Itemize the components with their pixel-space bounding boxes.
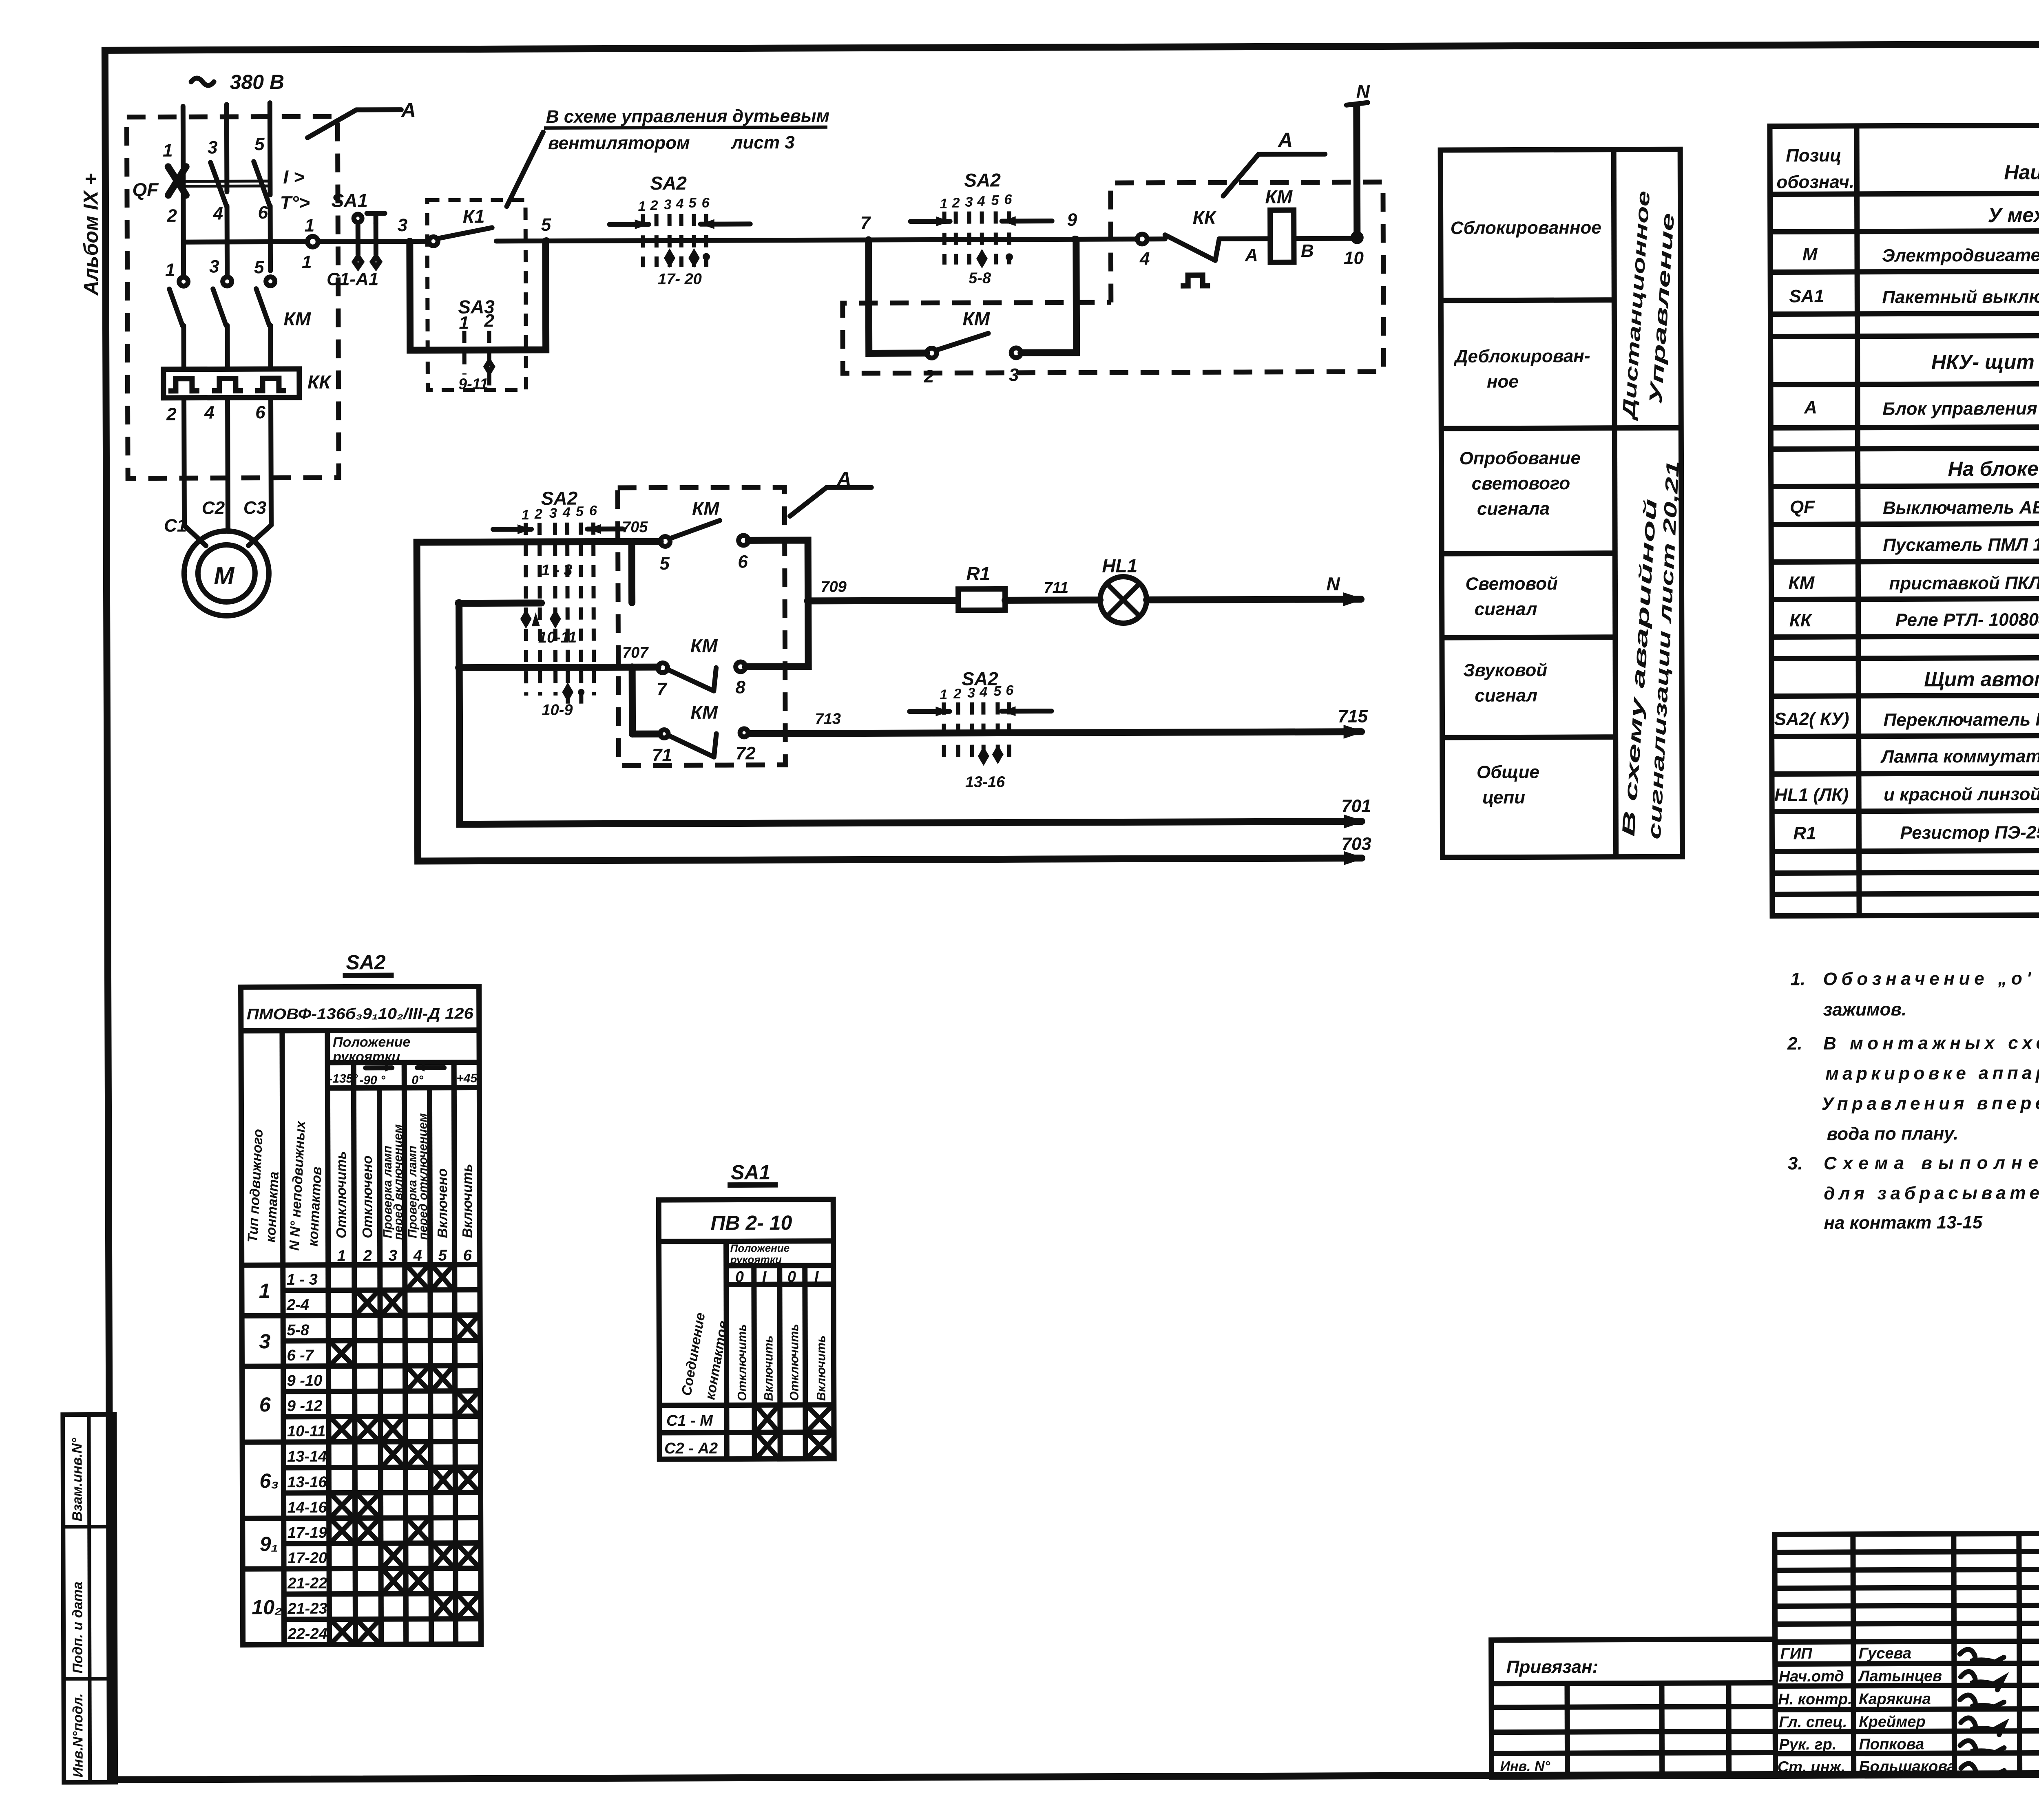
svg-text:1: 1 bbox=[302, 252, 312, 272]
svg-text:1: 1 bbox=[522, 507, 529, 523]
dashed box K1/SA3 bbox=[427, 200, 526, 390]
svg-text:Сблокированное: Сблокированное bbox=[1451, 218, 1601, 238]
svg-text:зажимов.: зажимов. bbox=[1823, 999, 1907, 1020]
svg-text:8: 8 bbox=[735, 677, 745, 697]
terminal 3 bbox=[208, 137, 218, 157]
svg-text:I: I bbox=[814, 1268, 819, 1285]
svg-text:9₁: 9₁ bbox=[260, 1533, 279, 1555]
terminal C1 bbox=[164, 516, 187, 536]
svg-text:С1 - М: С1 - М bbox=[666, 1412, 713, 1429]
svg-text:1: 1 bbox=[337, 1248, 346, 1265]
svg-text:7: 7 bbox=[657, 679, 668, 699]
svg-text:Звуковой: Звуковой bbox=[1463, 660, 1547, 680]
svg-text:701: 701 bbox=[1341, 796, 1371, 816]
switch SA2 contacts 5-8 bbox=[910, 169, 1052, 287]
svg-text:На блоке управления: На блоке управления bbox=[1948, 457, 2039, 480]
svg-text:17-19: 17-19 bbox=[287, 1524, 327, 1542]
svg-text:Ст. инж.: Ст. инж. bbox=[1778, 1758, 1846, 1776]
svg-text:703: 703 bbox=[1341, 834, 1371, 854]
svg-text:Инв.N°подл.: Инв.N°подл. bbox=[70, 1693, 86, 1777]
node 1 (open circle terminal) bbox=[302, 216, 318, 272]
svg-text:5: 5 bbox=[541, 215, 551, 235]
svg-text:Пакетный выключатель ПВ2-1: Пакетный выключатель ПВ2-10/У356 bbox=[1882, 286, 2039, 307]
node 7 bbox=[860, 213, 872, 243]
terminal 6 lower bbox=[255, 402, 265, 422]
svg-text:2: 2 bbox=[484, 311, 494, 331]
svg-text:В: В bbox=[1301, 241, 1314, 261]
dashed box KM aux contacts bbox=[618, 487, 785, 765]
row M motor bbox=[1802, 242, 2039, 266]
svg-text:3: 3 bbox=[663, 197, 671, 212]
terminal 4 lower bbox=[204, 403, 215, 423]
svg-text:6: 6 bbox=[259, 1393, 271, 1416]
wire node1 to node3 bbox=[318, 239, 407, 244]
svg-text:и красной линзой КМ60-55: и красной линзой КМ60-55 bbox=[1884, 784, 2039, 805]
svg-text:SA2: SA2 bbox=[541, 488, 578, 509]
block A (power) dashed outline bbox=[127, 117, 339, 479]
svg-text:С3: С3 bbox=[243, 498, 266, 518]
svg-text:НКУ- щит 1(2,3,4) Щ: НКУ- щит 1(2,3,4) Щ bbox=[1931, 350, 2039, 374]
svg-text:3: 3 bbox=[209, 256, 219, 276]
svg-text:А: А bbox=[1804, 398, 1817, 417]
resistor R1 bbox=[958, 563, 1005, 610]
svg-text:21-22: 21-22 bbox=[287, 1575, 327, 1592]
svg-text:5-8: 5-8 bbox=[969, 270, 991, 287]
KM bypass wire bbox=[869, 239, 1077, 353]
svg-text:А: А bbox=[1277, 128, 1293, 151]
svg-text:ное: ное bbox=[1487, 371, 1519, 391]
wire 709 row bbox=[808, 578, 957, 601]
svg-text:2: 2 bbox=[951, 195, 960, 211]
svg-text:Блок управления БОУ5130-267: Блок управления БОУ5130-2674УХЛ4Б bbox=[1882, 398, 2039, 419]
mode cell: blocked bbox=[1451, 218, 1601, 238]
node 707 bbox=[455, 597, 813, 672]
terminal 2 lower bbox=[166, 404, 177, 424]
svg-text:4: 4 bbox=[562, 505, 571, 520]
KK break contact bbox=[1147, 206, 1271, 286]
switch SA2 contacts 17-20 bbox=[609, 172, 750, 288]
wire to N bbox=[1353, 106, 1360, 234]
row starter bbox=[1883, 535, 2039, 555]
svg-text:КМ: КМ bbox=[283, 308, 311, 329]
svg-text:705: 705 bbox=[622, 519, 648, 536]
motor M bbox=[184, 531, 269, 616]
svg-text:I: I bbox=[762, 1268, 767, 1285]
svg-text:КМ: КМ bbox=[690, 635, 718, 656]
svg-text:Альбом IX +: Альбом IX + bbox=[79, 173, 102, 296]
wire node5 to node7 bbox=[546, 240, 869, 241]
row A control block bbox=[1804, 395, 2039, 419]
svg-text:3: 3 bbox=[965, 194, 973, 210]
contactor coil KM bbox=[1265, 186, 1294, 262]
svg-text:С1-А1: С1-А1 bbox=[327, 269, 378, 289]
svg-text:5: 5 bbox=[659, 554, 670, 574]
svg-text:Общие: Общие bbox=[1477, 762, 1539, 782]
svg-text:+45: +45 bbox=[456, 1071, 478, 1085]
phase wire L3 bbox=[268, 103, 273, 195]
section: on control block bbox=[1948, 457, 2039, 480]
KM aux contact 71-72 bbox=[632, 701, 756, 765]
svg-text:вода по плану.: вода по плану. bbox=[1827, 1124, 1959, 1144]
svg-text:цепи: цепи bbox=[1482, 787, 1525, 807]
svg-text:Гл. спец.: Гл. спец. bbox=[1779, 1714, 1847, 1731]
svg-text:380 В: 380 В bbox=[230, 71, 285, 93]
svg-text:SA1: SA1 bbox=[1789, 286, 1824, 306]
svg-text:Отключено: Отключено bbox=[360, 1155, 376, 1238]
svg-text:рукоятки: рукоятки bbox=[332, 1049, 400, 1065]
coil pin A bbox=[1245, 245, 1258, 265]
svg-text:T°>: T°> bbox=[280, 192, 310, 213]
svg-text:6: 6 bbox=[1006, 682, 1014, 698]
rotated: to alarm signalling scheme bbox=[1617, 460, 1684, 840]
lamp HL1 bbox=[1100, 555, 1147, 623]
svg-text:2: 2 bbox=[534, 506, 542, 522]
701 arrow bbox=[1341, 796, 1371, 828]
svg-text:КМ: КМ bbox=[692, 498, 720, 519]
svg-text:Включить: Включить bbox=[460, 1164, 475, 1238]
notes text block bbox=[1787, 967, 2039, 1233]
signal loop inner wire bbox=[459, 601, 1362, 824]
svg-text:Нач.отд: Нач.отд bbox=[1779, 1668, 1844, 1685]
svg-text:У механизма: У механизма bbox=[1988, 203, 2039, 227]
svg-text:лист 3: лист 3 bbox=[731, 133, 795, 152]
svg-text:Отключить: Отключить bbox=[735, 1324, 749, 1401]
svg-text:22-24: 22-24 bbox=[287, 1626, 327, 1643]
svg-text:5: 5 bbox=[438, 1247, 447, 1264]
svg-text:17- 20: 17- 20 bbox=[658, 271, 702, 288]
svg-text:Наименование: Наименование bbox=[2004, 161, 2039, 184]
node 3 bbox=[398, 215, 414, 245]
svg-text:Инв. N°: Инв. N° bbox=[1500, 1758, 1550, 1774]
svg-text:Управления впереди прост: Управления впереди проставляется номер э… bbox=[1821, 1092, 2039, 1114]
terminal 2 bbox=[167, 206, 177, 226]
svg-text:Опробование: Опробование bbox=[1459, 448, 1581, 468]
svg-text:3: 3 bbox=[549, 506, 557, 521]
svg-text:I >: I > bbox=[283, 166, 305, 188]
node 5 bbox=[541, 215, 551, 245]
svg-text:М: М bbox=[214, 562, 235, 589]
svg-text:обознач.: обознач. bbox=[1776, 172, 1854, 192]
KM contact terminal 5 bbox=[254, 257, 264, 277]
svg-text:3: 3 bbox=[398, 215, 408, 235]
svg-text:1 - 3: 1 - 3 bbox=[287, 1271, 318, 1288]
svg-text:сигнал: сигнал bbox=[1475, 685, 1537, 705]
svg-text:Положение: Положение bbox=[730, 1242, 790, 1254]
svg-text:светового: светового bbox=[1472, 473, 1570, 494]
svg-text:10₂: 10₂ bbox=[252, 1596, 282, 1619]
svg-text:С1: С1 bbox=[164, 516, 187, 536]
svg-text:вентилятором: вентилятором bbox=[548, 133, 690, 153]
svg-text:Щит автоматизации Щ-К1: Щит автоматизации Щ-К1 bbox=[1924, 667, 2039, 691]
breaker QF label bbox=[132, 179, 159, 200]
svg-text:2.: 2. bbox=[1787, 1034, 1802, 1054]
svg-text:-135°: -135° bbox=[328, 1072, 358, 1085]
715 arrow bbox=[1338, 707, 1368, 739]
svg-text:715: 715 bbox=[1338, 707, 1368, 727]
svg-text:5: 5 bbox=[688, 195, 697, 211]
svg-text:10-11: 10-11 bbox=[538, 629, 577, 646]
svg-text:2: 2 bbox=[953, 686, 961, 702]
row HL1 lamp bbox=[1774, 780, 2039, 805]
svg-text:6: 6 bbox=[258, 203, 268, 223]
svg-text:2: 2 bbox=[363, 1247, 372, 1264]
svg-text:Карякина: Карякина bbox=[1859, 1690, 1931, 1708]
svg-text:SA1: SA1 bbox=[731, 1161, 770, 1184]
svg-text:5: 5 bbox=[576, 504, 584, 519]
svg-text:Световой: Световой bbox=[1465, 574, 1558, 594]
thermal relay KK heaters bbox=[164, 369, 299, 398]
KM aux contact 7-8 bbox=[657, 603, 809, 699]
svg-text:2: 2 bbox=[924, 367, 934, 387]
wire 705 drop bbox=[628, 541, 635, 603]
node 9 bbox=[1067, 210, 1079, 243]
svg-text:7: 7 bbox=[860, 213, 871, 233]
svg-text:ПМОВФ-136б₃9₁10₂/III-Д 126: ПМОВФ-136б₃9₁10₂/III-Д 126 bbox=[247, 1005, 474, 1023]
section: NKU panel bbox=[1931, 350, 2039, 374]
svg-text:4: 4 bbox=[1139, 249, 1150, 269]
~380V supply label bbox=[191, 71, 285, 94]
svg-text:Отключить: Отключить bbox=[787, 1324, 801, 1401]
svg-text:9 -10: 9 -10 bbox=[287, 1372, 323, 1389]
svg-text:4: 4 bbox=[977, 194, 985, 209]
svg-text:14-16: 14-16 bbox=[287, 1499, 327, 1516]
svg-text:маркировке аппаратов и ка: маркировке аппаратов и кабелей, в обозна… bbox=[1825, 1062, 2039, 1084]
phase wire L2 bbox=[224, 104, 230, 192]
svg-text:0°: 0° bbox=[411, 1073, 424, 1087]
svg-text:Лампа коммутаторная с лампод: Лампа коммутаторная с ламподержателем bbox=[1880, 746, 2039, 767]
svg-text:1: 1 bbox=[165, 260, 175, 280]
phase wire L1 bbox=[181, 106, 186, 192]
wire coil to node10 bbox=[1294, 236, 1357, 241]
svg-text:Привязан:: Привязан: bbox=[1506, 1657, 1599, 1677]
SA3 bypass wire bbox=[410, 241, 546, 350]
svg-text:Креймер: Креймер bbox=[1859, 1713, 1926, 1731]
svg-text:4: 4 bbox=[675, 196, 683, 212]
terminal C3 bbox=[243, 498, 266, 518]
component list table bbox=[1770, 124, 2039, 916]
node 4 bbox=[1137, 234, 1150, 269]
row KM contactor bbox=[1788, 570, 2039, 594]
svg-text:5: 5 bbox=[993, 683, 1002, 699]
svg-text:В схеме управления дутьевым: В схеме управления дутьевым bbox=[546, 106, 829, 127]
svg-text:713: 713 bbox=[815, 711, 841, 728]
svg-text:13-14: 13-14 bbox=[287, 1448, 327, 1465]
row lamp bbox=[1880, 746, 2039, 767]
wire node9 to node4 bbox=[1075, 236, 1137, 241]
svg-text:71: 71 bbox=[652, 745, 672, 765]
svg-text:SA2( КУ): SA2( КУ) bbox=[1774, 709, 1849, 729]
svg-text:Положение: Положение bbox=[333, 1034, 411, 1050]
svg-text:1 - 3: 1 - 3 bbox=[541, 562, 572, 579]
svg-text:72: 72 bbox=[736, 743, 756, 763]
svg-text:13-16: 13-16 bbox=[965, 773, 1005, 791]
svg-text:2: 2 bbox=[650, 198, 658, 213]
svg-text:Включить: Включить bbox=[814, 1335, 828, 1401]
limit switch SA3 bbox=[458, 296, 495, 393]
block A label signal bbox=[790, 467, 871, 516]
svg-text:6₃: 6₃ bbox=[259, 1469, 279, 1492]
svg-text:10-9: 10-9 bbox=[542, 702, 573, 719]
KM main contact pole 1 bbox=[169, 242, 188, 369]
left margin stamp boxes bbox=[63, 1414, 116, 1782]
svg-text:10: 10 bbox=[1344, 248, 1364, 268]
mode cell: common circuits bbox=[1477, 762, 1539, 807]
svg-text:6: 6 bbox=[1004, 192, 1012, 207]
row QF breaker bbox=[1790, 495, 2039, 518]
703 arrow bbox=[1341, 834, 1371, 865]
svg-text:QF: QF bbox=[132, 179, 159, 200]
svg-text:QF: QF bbox=[1790, 497, 1815, 517]
svg-text:Выключатель АЕ 2016- 10Н: Выключатель АЕ 2016- 10НУЗ bbox=[1883, 497, 2039, 518]
svg-text:ПВ 2- 10: ПВ 2- 10 bbox=[710, 1211, 792, 1235]
overcurrent release I> bbox=[283, 166, 305, 188]
breaker QF pole 2 bbox=[210, 162, 227, 242]
svg-text:3: 3 bbox=[967, 685, 975, 701]
row R1 resistor bbox=[1793, 818, 2039, 843]
svg-text:HL1 (ЛК): HL1 (ЛК) bbox=[1774, 785, 1849, 805]
svg-text:HL1: HL1 bbox=[1102, 555, 1137, 576]
svg-text:КК: КК bbox=[1789, 610, 1813, 630]
SA2 contact state table bbox=[241, 950, 481, 1645]
mode cell: light signal bbox=[1465, 574, 1558, 619]
svg-text:4: 4 bbox=[204, 403, 215, 423]
node 10 bbox=[1344, 234, 1364, 268]
KM aux contact 5-6 bbox=[659, 497, 808, 601]
svg-text:Переключатель ПМОВФ-136б₃9₁10: Переключатель ПМОВФ-136б₃9₁10₂/III-Д 126 bbox=[1883, 709, 2039, 730]
svg-text:R1: R1 bbox=[966, 563, 990, 584]
svg-text:0: 0 bbox=[787, 1268, 796, 1285]
wire node7 to node9 bbox=[869, 239, 1075, 240]
svg-text:КК: КК bbox=[307, 371, 332, 393]
terminal 4 bbox=[213, 203, 223, 223]
terminal 5 bbox=[254, 134, 265, 154]
svg-text:приставкой ПКЛ 2204: приставкой ПКЛ 2204 bbox=[1889, 573, 2039, 594]
svg-text:SA2: SA2 bbox=[650, 172, 687, 194]
wire 707 row bbox=[459, 667, 658, 668]
svg-text:707: 707 bbox=[622, 644, 649, 661]
relay contact K1 bbox=[410, 205, 544, 246]
svg-text:1: 1 bbox=[940, 687, 947, 702]
breaker QF pole 3 bbox=[254, 161, 270, 271]
svg-text:6: 6 bbox=[255, 402, 265, 422]
svg-text:Резистор ПЭ-25: Резистор ПЭ-25 bbox=[1900, 822, 2039, 843]
KM contact terminal 1 bbox=[165, 260, 175, 280]
svg-text:Большакова: Большакова bbox=[1859, 1758, 1956, 1776]
svg-text:6: 6 bbox=[701, 195, 710, 211]
terminal 6 bbox=[258, 203, 268, 223]
SA1 contact state table bbox=[659, 1161, 834, 1459]
svg-text:5: 5 bbox=[254, 134, 265, 154]
svg-text:С2 - А2: С2 - А2 bbox=[664, 1440, 718, 1457]
terminal 1 bbox=[163, 141, 173, 161]
svg-text:Включено: Включено bbox=[435, 1168, 451, 1238]
svg-text:4: 4 bbox=[413, 1247, 422, 1264]
svg-text:R1: R1 bbox=[1793, 823, 1816, 843]
svg-text:КМ: КМ bbox=[690, 702, 718, 723]
svg-text:Отключить: Отключить bbox=[334, 1151, 349, 1238]
section: at mechanism bbox=[1988, 203, 2039, 227]
svg-text:Деблокирован-: Деблокирован- bbox=[1453, 346, 1590, 367]
svg-text:3: 3 bbox=[208, 137, 218, 157]
svg-text:6: 6 bbox=[463, 1247, 472, 1264]
svg-text:Включить: Включить bbox=[762, 1336, 776, 1401]
svg-text:2-4: 2-4 bbox=[286, 1297, 309, 1314]
svg-text:1: 1 bbox=[259, 1279, 270, 1302]
C1-A1 marking bbox=[327, 269, 378, 289]
svg-text:N: N bbox=[1326, 573, 1340, 594]
svg-text:9 -12: 9 -12 bbox=[287, 1398, 323, 1415]
svg-text:4: 4 bbox=[979, 685, 987, 700]
svg-text:ГИП: ГИП bbox=[1780, 1645, 1813, 1662]
svg-text:SA2: SA2 bbox=[346, 951, 386, 974]
svg-text:3: 3 bbox=[389, 1247, 397, 1264]
svg-text:1: 1 bbox=[940, 196, 947, 212]
svg-text:на контакт 13-15: на контакт 13-15 bbox=[1824, 1213, 1982, 1233]
svg-text:перед включением: перед включением bbox=[391, 1124, 405, 1240]
table header texts bbox=[1776, 144, 2039, 192]
mode cell: lamp test bbox=[1459, 448, 1581, 519]
wire 71 drop bbox=[629, 667, 636, 734]
svg-text:С2: С2 bbox=[202, 498, 225, 518]
svg-text:-90 °: -90 ° bbox=[359, 1073, 386, 1087]
svg-text:Подп. и дата: Подп. и дата bbox=[70, 1581, 86, 1673]
KM auxiliary contact 2-3 bbox=[923, 308, 1021, 387]
svg-text:Реле РТЛ- 100804: Реле РТЛ- 100804 bbox=[1895, 610, 2039, 630]
svg-text:перед отключением: перед отключением bbox=[416, 1113, 430, 1240]
KK label bbox=[307, 371, 332, 393]
svg-text:КМ: КМ bbox=[1788, 573, 1815, 593]
svg-text:709: 709 bbox=[820, 579, 847, 596]
block A label and leader bbox=[307, 99, 416, 138]
svg-text:6: 6 bbox=[589, 503, 597, 519]
svg-text:21-23: 21-23 bbox=[287, 1600, 327, 1617]
svg-text:1.: 1. bbox=[1790, 969, 1805, 989]
svg-text:N: N bbox=[1356, 81, 1370, 102]
svg-text:Гусева: Гусева bbox=[1859, 1645, 1912, 1662]
svg-text:Позиц: Позиц bbox=[1786, 146, 1841, 166]
thermal release T> bbox=[280, 192, 310, 213]
KM main contact pole 2 bbox=[213, 242, 232, 369]
wire to N arrow bbox=[1146, 573, 1364, 607]
signal loop outer wire bbox=[417, 539, 1362, 861]
motor feeder wires bbox=[184, 398, 271, 546]
svg-text:5: 5 bbox=[991, 192, 999, 208]
QF linkage bar bbox=[181, 181, 272, 186]
svg-text:6: 6 bbox=[738, 552, 748, 572]
svg-text:2: 2 bbox=[167, 206, 177, 226]
svg-text:Латынцев: Латынцев bbox=[1858, 1668, 1942, 1685]
margin text Album IX bbox=[79, 173, 102, 296]
rotated: remote control bbox=[1618, 190, 1679, 422]
svg-text:6 -7: 6 -7 bbox=[287, 1347, 314, 1364]
terminal C2 bbox=[202, 498, 225, 518]
mode cell: unblocked bbox=[1453, 346, 1590, 392]
switch SA1 bbox=[331, 190, 385, 267]
svg-text:КМ: КМ bbox=[962, 308, 990, 329]
block A label control bbox=[1223, 128, 1325, 196]
svg-text:9-11: 9-11 bbox=[458, 375, 488, 393]
svg-text:5-8: 5-8 bbox=[287, 1322, 310, 1339]
mode table frame bbox=[1440, 149, 1682, 857]
svg-text:рукоятки: рукоятки bbox=[730, 1253, 782, 1266]
svg-text:3: 3 bbox=[259, 1330, 270, 1353]
wire 711 bbox=[1005, 579, 1100, 601]
title block: signature table bbox=[1775, 1532, 2039, 1776]
svg-text:2: 2 bbox=[166, 404, 177, 424]
KM label bbox=[283, 308, 311, 329]
note: to fan control scheme text bbox=[506, 106, 830, 206]
section: automation panel bbox=[1924, 667, 2039, 691]
